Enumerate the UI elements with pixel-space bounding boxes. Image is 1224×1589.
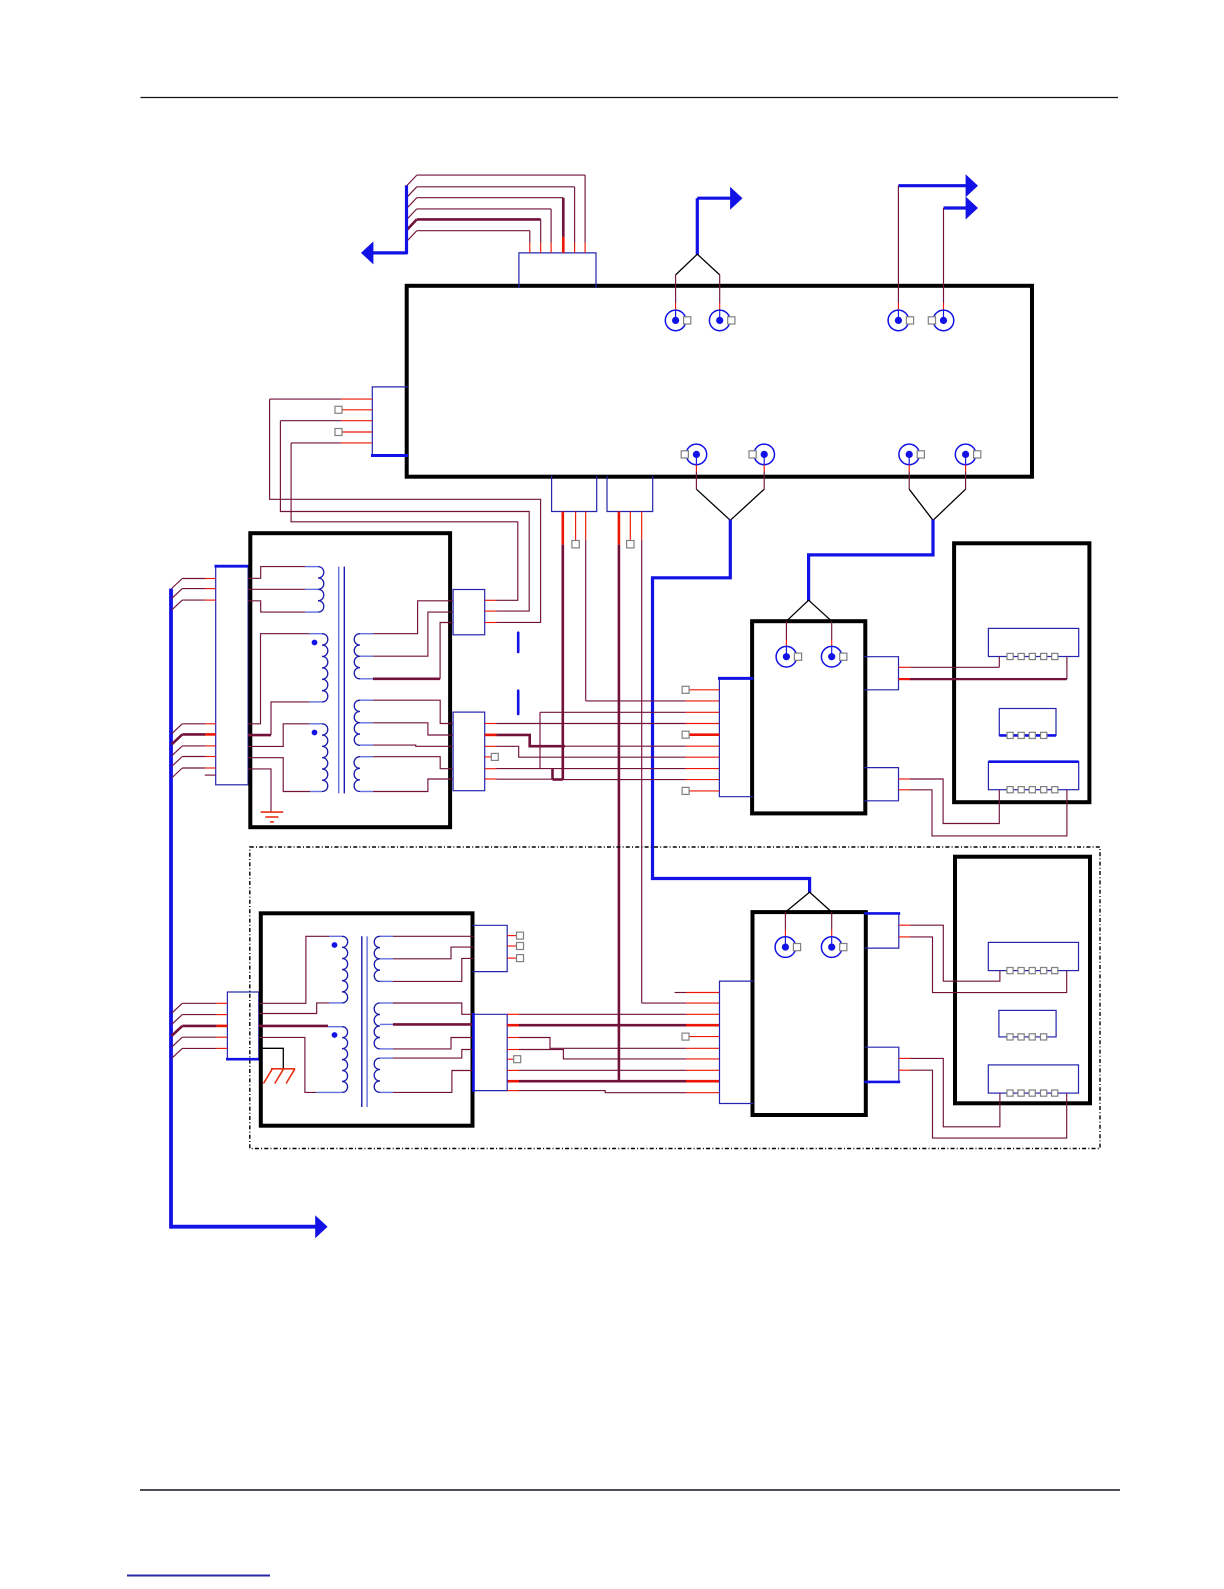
- T1 winding L3 polarity dot: [312, 730, 318, 736]
- wire J16-1 to M2 meter C: [899, 1058, 1000, 1126]
- T2 winding L1 leads: [259, 936, 329, 1013]
- connector J15 (DUT2 output A): [864, 913, 900, 948]
- BNC connector P6: [749, 444, 775, 465]
- net arrow A3 (right): [898, 174, 978, 197]
- BNC connector P1: [665, 310, 691, 331]
- wire Y1b to BNC P10: [809, 600, 832, 657]
- wire J13-5 stub: [507, 1058, 513, 1060]
- wire Y1a to BNC P9: [786, 600, 808, 657]
- wire to BNC P3: [897, 186, 899, 321]
- test point TP7: [682, 731, 689, 738]
- earth ground GND1 (T1): [261, 812, 284, 822]
- T2 winding S1 leads: [393, 936, 474, 981]
- isolation dash D2: [517, 691, 520, 714]
- blue cable from Y3 to DUT1: [809, 520, 933, 602]
- footer rule: [140, 1489, 1120, 1491]
- wire J14-1 stub: [675, 992, 720, 994]
- wire J8-5 stub (thick): [689, 733, 719, 736]
- wire bundle W2 (bus to J5 top): [172, 579, 216, 611]
- header rule: [141, 97, 1119, 99]
- BNC connector P12: [821, 937, 847, 958]
- wire from BNC P5: [695, 454, 697, 489]
- wire J12-3 stub: [507, 957, 516, 959]
- test point TP3: [335, 406, 342, 413]
- T1 winding S3: [354, 757, 373, 792]
- T2 winding S3 leads: [393, 1050, 474, 1093]
- wire J13-6 to J14-8: [507, 1069, 719, 1071]
- M1 meter B terminals: [1007, 732, 1047, 738]
- wire J8-3: [540, 712, 719, 768]
- T2 winding L2 leads: [259, 1026, 328, 1093]
- M1 meter C outline: [988, 762, 1078, 790]
- main unit U1 outline: [407, 286, 1032, 477]
- T1 winding L1 leads: [248, 567, 305, 613]
- wire J7-4 stub: [485, 756, 492, 758]
- wire J8-1 stub: [689, 689, 719, 691]
- test point TP13: [682, 1033, 689, 1040]
- connector J6 (T1 secondary A): [453, 590, 485, 635]
- wire J13-4 to J14-7: [507, 1050, 719, 1059]
- wire J15-2 to M2 meter A: [899, 937, 1067, 993]
- wire J9-2 to meter A: [899, 657, 1067, 680]
- connector J5 (T1 primary): [215, 566, 250, 785]
- test point TP12: [514, 1056, 521, 1063]
- T1 winding S3 leads: [373, 757, 453, 792]
- wire Y4b to BNC P12: [831, 912, 833, 947]
- connector J14 (DUT2 input): [720, 981, 754, 1103]
- wire J16-2 to M2 meter C: [899, 1070, 1067, 1138]
- M1 meter A outline: [988, 628, 1078, 656]
- wire J7-1 to J8-4: [485, 723, 720, 725]
- T1 winding S1: [354, 634, 373, 679]
- connector J10 (DUT1 output B): [864, 768, 898, 801]
- connector J11 (T2 primary): [226, 992, 260, 1059]
- test point TP9: [517, 932, 524, 939]
- wire bundle W4 (bus to J11): [172, 1003, 228, 1058]
- blue bus B1 (left): [171, 589, 316, 1229]
- T2 winding L1: [329, 936, 348, 1003]
- T1 winding S1 leads: [373, 601, 453, 679]
- option area border (dash-dot): [250, 847, 1100, 1149]
- wire from BNC P7: [908, 454, 910, 489]
- BNC connector P7: [899, 444, 925, 465]
- BNC connector P11: [775, 937, 801, 958]
- M1 meter A terminals: [1007, 653, 1058, 659]
- connector J4 (under main unit): [607, 476, 653, 512]
- wire J2-2 stub: [342, 409, 372, 411]
- wire J3-1 (thick): [553, 512, 563, 780]
- BNC connector P2: [709, 310, 735, 331]
- wire J7-3 to J8-7: [485, 746, 720, 757]
- T2 winding S2 leads: [393, 1003, 474, 1049]
- chassis ground GND2 (T2): [264, 1069, 296, 1084]
- transformer T1 outline: [250, 533, 450, 827]
- T1 winding S2 leads: [373, 700, 453, 746]
- M1 meter C terminals: [1007, 787, 1058, 793]
- wire J10-2 to meter C: [899, 790, 1067, 836]
- BNC connector P3: [888, 310, 914, 331]
- M1 meter B outline: [999, 709, 1056, 736]
- M2 meter B outline: [999, 1010, 1056, 1037]
- connector J12 (T2 secondary A): [473, 925, 508, 971]
- wire J10-1 to meter C: [899, 779, 1000, 824]
- wire J2-5 to J6-1: [291, 443, 518, 600]
- wire J7-6 to J8-9: [485, 778, 720, 781]
- cable Y-join Y1: [676, 254, 720, 275]
- wire to BNC P1: [675, 275, 677, 321]
- isolation dash D1: [517, 633, 520, 652]
- wire J13-2 to J14-4 (thick): [507, 1024, 719, 1027]
- wire J2-3 to J6-2: [280, 421, 529, 611]
- connector J9 (DUT1 output A): [864, 657, 898, 690]
- wire bundle W1 (6 wires to J1): [406, 175, 585, 253]
- wire J7-5 to J8-8: [485, 768, 720, 770]
- test point TP1: [572, 541, 579, 548]
- connector J13 (T2 secondary B): [473, 1013, 508, 1092]
- T2 winding S1: [374, 936, 393, 981]
- wire from BNC P6: [763, 454, 765, 489]
- T2 winding L1 polarity dot: [332, 942, 338, 948]
- T2 winding L2: [316, 1027, 348, 1093]
- test point TP10: [517, 943, 524, 950]
- monitor M1 outline: [954, 543, 1089, 802]
- footer link underline: [127, 1575, 270, 1577]
- connector J7 (T1 secondary B): [453, 712, 485, 791]
- wire J3-3: [585, 512, 587, 701]
- T2 winding S3: [374, 1058, 393, 1092]
- M2 meter B terminals: [1007, 1034, 1047, 1040]
- BNC connector P10: [821, 646, 847, 667]
- wire to BNC P2: [719, 275, 721, 321]
- DUT1 outline: [752, 621, 865, 813]
- net arrow A1 (left): [361, 185, 407, 264]
- wire J13-8 to J14-10: [507, 1091, 719, 1093]
- T1 winding S2: [354, 700, 373, 745]
- wire Y4a to BNC P11: [784, 912, 786, 947]
- test point TP6: [682, 686, 689, 693]
- wire to BNC P4: [943, 208, 945, 320]
- wire J8-2: [586, 700, 720, 702]
- connector J8 (DUT1 input): [718, 678, 753, 797]
- net arrow A5 (right, bottom): [315, 1215, 327, 1238]
- BNC connector P5: [681, 444, 707, 465]
- wire J15-1 to M2 meter A: [899, 925, 1000, 981]
- test point TP2: [627, 541, 634, 548]
- wire J12-1 stub: [507, 935, 516, 937]
- DUT2 outline: [753, 912, 866, 1115]
- wire J3-2 to test point: [575, 512, 577, 541]
- T1 winding L2 leads: [248, 634, 309, 735]
- BNC connector P9: [776, 646, 802, 667]
- wire J13-3 to J14-6: [507, 1038, 719, 1049]
- wire J4-3: [642, 512, 720, 1004]
- BNC connector P4: [928, 310, 954, 331]
- cable Y-join Y3: [909, 489, 965, 520]
- wire J12-2 stub: [507, 945, 516, 947]
- wire J4-1 (thick): [507, 512, 719, 1082]
- M2 meter A terminals: [1007, 968, 1058, 974]
- T1 winding L1: [305, 567, 324, 613]
- T2 winding S2: [374, 1003, 393, 1049]
- wire J2-1 to J6-3: [270, 399, 541, 622]
- net arrow A2 (up-right): [697, 187, 742, 255]
- cable Y-join Y4: [785, 892, 831, 912]
- connector J1 (top of main unit): [519, 253, 596, 288]
- test point TP5: [491, 753, 498, 760]
- wire from BNC P8: [965, 454, 967, 489]
- T1 winding L3: [309, 724, 328, 792]
- wire J7-2 to J8-6 (thick): [485, 735, 720, 746]
- T1 winding L3 leads: [248, 724, 310, 812]
- monitor M2 outline: [955, 857, 1090, 1104]
- wire J13-1 to J14-3: [507, 1013, 719, 1015]
- connector J3 (under main unit): [552, 476, 597, 512]
- wire J2-4 stub: [342, 431, 372, 433]
- test point TP11: [517, 955, 524, 962]
- wire J14-5 stub: [689, 1036, 719, 1038]
- blue cable from Y2 to DUT2: [653, 520, 810, 893]
- transformer T1 core: [339, 567, 345, 794]
- connector J2 (left of main unit): [371, 387, 408, 456]
- T1 winding L2: [309, 634, 328, 702]
- T2 winding L2 polarity dot: [332, 1032, 338, 1038]
- M2 meter A outline: [988, 942, 1078, 970]
- M2 meter C outline: [988, 1065, 1078, 1093]
- M2 meter C terminals: [1007, 1090, 1058, 1096]
- test point TP4: [335, 429, 342, 436]
- ground wire (black): [263, 1048, 284, 1069]
- wire J8-10 stub: [689, 790, 719, 792]
- wire J9-1 to meter A: [899, 657, 1000, 668]
- wire J4-2 to test point: [629, 512, 631, 541]
- BNC connector P8: [955, 444, 981, 465]
- test point TP8: [682, 787, 689, 794]
- transformer T2 core: [362, 936, 367, 1107]
- net arrow A4 (right): [944, 197, 979, 220]
- wire bundle W3 (bus to J5 bottom): [172, 724, 216, 778]
- transformer T2 outline: [261, 913, 473, 1125]
- T1 winding L2 polarity dot: [312, 640, 318, 646]
- cable Y-join Y2: [696, 489, 764, 520]
- connector J16 (DUT2 output B): [864, 1047, 900, 1082]
